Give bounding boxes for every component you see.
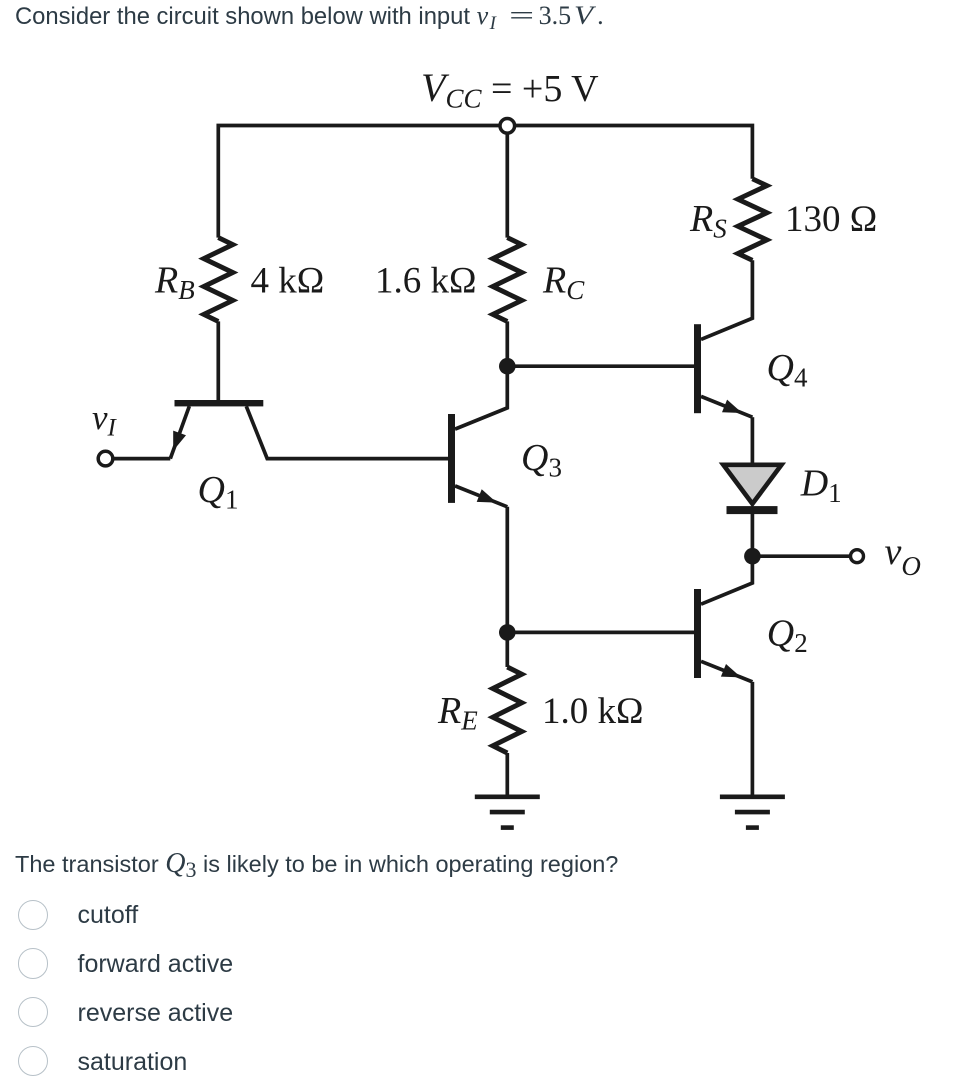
svg-text:RB​: RB​ — [154, 260, 195, 306]
svg-text:Q1​: Q1​ — [198, 469, 239, 515]
svg-text:RS​: RS​ — [689, 198, 727, 244]
svg-text:Q3​: Q3​ — [521, 437, 562, 483]
svg-text:vO​: vO​ — [885, 531, 921, 581]
svg-text:vI​: vI​ — [92, 398, 118, 442]
svg-text:Q4​: Q4​ — [767, 347, 808, 393]
svg-text:1.0 kΩ: 1.0 kΩ — [542, 691, 644, 732]
svg-text:RE​: RE​ — [437, 690, 478, 736]
svg-text:4 kΩ: 4 kΩ — [251, 261, 325, 302]
svg-text:130 Ω: 130 Ω — [785, 199, 877, 240]
svg-text:Q2​: Q2​ — [767, 613, 808, 659]
svg-text:D1​: D1​ — [800, 463, 842, 509]
svg-text:1.6 kΩ: 1.6 kΩ — [375, 261, 477, 302]
svg-text:VCC​ = +5 V: VCC​ = +5 V — [421, 65, 599, 114]
svg-text:RC​: RC​ — [542, 260, 585, 306]
